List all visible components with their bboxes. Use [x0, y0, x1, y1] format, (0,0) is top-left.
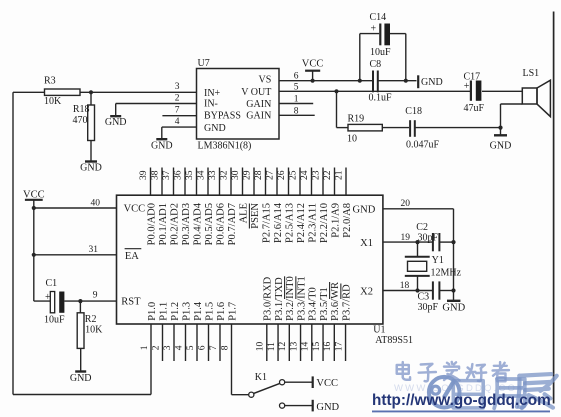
svg-text:P1.1: P1.1: [158, 302, 169, 321]
svg-text:GND: GND: [490, 141, 512, 152]
svg-text:30pF: 30pF: [418, 302, 439, 313]
svg-text:P3.5/T1: P3.5/T1: [319, 287, 330, 321]
svg-text:33: 33: [208, 170, 218, 180]
svg-text:C2: C2: [416, 222, 428, 233]
svg-text:18: 18: [400, 281, 410, 291]
svg-text:10: 10: [256, 342, 266, 352]
svg-text:GND: GND: [353, 204, 376, 215]
svg-text:11: 11: [267, 342, 277, 351]
svg-text:RST: RST: [121, 296, 141, 307]
svg-text:6: 6: [197, 345, 207, 350]
svg-text:U1: U1: [373, 325, 385, 336]
svg-text:24: 24: [300, 170, 310, 180]
svg-text:P1.5: P1.5: [204, 302, 215, 321]
svg-text:GND: GND: [316, 402, 339, 413]
svg-text:30: 30: [231, 170, 241, 180]
svg-text:GND: GND: [105, 117, 127, 128]
svg-text:IN-: IN-: [204, 99, 218, 110]
svg-text:VCC: VCC: [316, 378, 338, 389]
svg-text:8: 8: [220, 345, 230, 350]
svg-text:P3.6/WR: P3.6/WR: [330, 282, 341, 321]
svg-text:12: 12: [278, 342, 288, 352]
svg-text:AT89S51: AT89S51: [375, 335, 413, 346]
svg-text:X1: X1: [360, 238, 373, 249]
svg-text:P1.0: P1.0: [147, 302, 158, 321]
svg-text:28: 28: [254, 170, 264, 180]
svg-text:R19: R19: [348, 113, 365, 124]
svg-text:2: 2: [175, 94, 180, 104]
svg-text:P2.7/A15: P2.7/A15: [261, 203, 272, 243]
svg-text:P2.6/A14: P2.6/A14: [273, 202, 284, 243]
svg-text:http://www.go-gddq.com: http://www.go-gddq.com: [372, 392, 551, 409]
svg-text:17: 17: [334, 342, 344, 352]
svg-text:C14: C14: [370, 12, 387, 23]
svg-text:13: 13: [289, 342, 299, 352]
svg-text:0.1uF: 0.1uF: [369, 93, 393, 104]
svg-text:25: 25: [289, 170, 299, 180]
svg-text:19: 19: [401, 233, 411, 243]
svg-text:+: +: [371, 24, 377, 35]
svg-text:7: 7: [209, 345, 219, 350]
svg-text:47uF: 47uF: [464, 103, 485, 114]
svg-text:P0.1/AD1: P0.1/AD1: [158, 203, 169, 245]
svg-text:GND: GND: [442, 302, 465, 313]
svg-text:BYPASS: BYPASS: [204, 111, 241, 122]
svg-text:10uF: 10uF: [370, 47, 391, 58]
svg-text:10K: 10K: [44, 96, 62, 107]
svg-text:P2.2/A10: P2.2/A10: [319, 203, 330, 243]
svg-text:39: 39: [139, 170, 149, 180]
svg-text:27: 27: [266, 170, 276, 180]
svg-text:P3.2/INT0: P3.2/INT0: [285, 276, 296, 321]
svg-text:31: 31: [89, 245, 99, 255]
svg-text:U7: U7: [198, 58, 210, 69]
svg-text:R18: R18: [73, 104, 90, 115]
svg-text:Y1: Y1: [432, 255, 444, 266]
svg-text:29: 29: [243, 170, 253, 180]
svg-text:15: 15: [312, 342, 322, 352]
svg-text:P0.2/AD2: P0.2/AD2: [169, 203, 180, 245]
svg-text:P1.4: P1.4: [193, 301, 204, 321]
svg-text:GND: GND: [80, 162, 102, 173]
svg-text:21: 21: [335, 170, 345, 180]
svg-text:P1.2: P1.2: [170, 302, 181, 321]
svg-text:EA: EA: [125, 251, 139, 262]
svg-text:3: 3: [175, 82, 180, 92]
svg-text:P2.5/A13: P2.5/A13: [284, 203, 295, 243]
svg-text:P1.6: P1.6: [216, 302, 227, 321]
svg-text:5: 5: [186, 345, 196, 350]
svg-text:P1.3: P1.3: [181, 302, 192, 321]
svg-text:VCC: VCC: [124, 203, 146, 214]
svg-text:16: 16: [323, 342, 333, 352]
svg-text:30pF: 30pF: [418, 232, 439, 243]
svg-text:P0.7/AD7: P0.7/AD7: [227, 203, 238, 245]
svg-text:GND: GND: [204, 123, 226, 134]
svg-text:X2: X2: [360, 286, 373, 297]
svg-text:26: 26: [277, 170, 287, 180]
svg-text:PSEN: PSEN: [250, 203, 261, 229]
svg-text:C18: C18: [405, 106, 422, 117]
svg-text:IN+: IN+: [204, 88, 221, 99]
svg-text:P3.0/RXD: P3.0/RXD: [263, 276, 274, 320]
svg-text:R3: R3: [44, 76, 56, 87]
svg-text:470: 470: [73, 115, 88, 126]
svg-text:34: 34: [197, 170, 207, 180]
svg-text:P2.0/A8: P2.0/A8: [342, 203, 353, 238]
svg-text:LM386N1(8): LM386N1(8): [198, 141, 252, 152]
svg-text:P3.7/RD: P3.7/RD: [341, 284, 352, 321]
svg-text:10: 10: [347, 134, 357, 145]
svg-text:K1: K1: [255, 372, 267, 383]
svg-text:3: 3: [163, 345, 173, 350]
svg-text:0.047uF: 0.047uF: [406, 139, 440, 150]
svg-text:4: 4: [174, 345, 184, 350]
svg-text:P0.5/AD5: P0.5/AD5: [204, 203, 215, 245]
svg-text:6: 6: [294, 72, 299, 82]
svg-text:P3.1/TXD: P3.1/TXD: [274, 277, 285, 321]
svg-text:37: 37: [162, 170, 172, 180]
svg-text:GAIN: GAIN: [246, 99, 271, 110]
svg-text:10K: 10K: [85, 324, 103, 335]
svg-text:VCC: VCC: [302, 59, 324, 70]
svg-text:+: +: [45, 292, 51, 303]
svg-text:C8: C8: [370, 59, 382, 70]
svg-text:14: 14: [301, 342, 311, 352]
svg-text:+: +: [464, 81, 470, 92]
svg-text:P3.3/INT1: P3.3/INT1: [296, 276, 307, 321]
svg-text:7: 7: [175, 106, 180, 116]
svg-text:C17: C17: [464, 72, 481, 83]
svg-text:36: 36: [174, 170, 184, 180]
svg-text:P2.1/A9: P2.1/A9: [330, 203, 341, 238]
svg-text:P0.4/AD4: P0.4/AD4: [192, 202, 203, 245]
svg-text:9: 9: [93, 291, 98, 301]
svg-text:1: 1: [140, 345, 150, 350]
svg-text:35: 35: [185, 170, 195, 180]
svg-text:P0.6/AD6: P0.6/AD6: [215, 203, 226, 245]
svg-text:P0.3/AD3: P0.3/AD3: [181, 203, 192, 245]
svg-text:20: 20: [401, 199, 411, 209]
svg-text:32: 32: [220, 170, 230, 180]
svg-text:12MHz: 12MHz: [431, 268, 462, 279]
svg-text:4: 4: [175, 117, 180, 127]
svg-text:GND: GND: [70, 373, 92, 384]
svg-text:P0.0/AD0: P0.0/AD0: [146, 203, 157, 245]
svg-text:P2.4/A12: P2.4/A12: [296, 203, 307, 243]
svg-text:40: 40: [91, 199, 101, 209]
svg-text:10uF: 10uF: [44, 314, 65, 325]
svg-text:P2.3/A11: P2.3/A11: [307, 203, 318, 243]
svg-text:23: 23: [312, 170, 322, 180]
svg-text:LS1: LS1: [523, 68, 540, 79]
svg-text:GAIN: GAIN: [246, 111, 271, 122]
svg-text:22: 22: [323, 170, 333, 180]
svg-text:2: 2: [151, 345, 161, 350]
svg-text:5: 5: [294, 83, 299, 93]
svg-text:C1: C1: [46, 278, 58, 289]
svg-text:V OUT: V OUT: [241, 87, 271, 98]
svg-text:38: 38: [151, 170, 161, 180]
svg-text:P1.7: P1.7: [227, 302, 238, 321]
svg-text:C3: C3: [418, 291, 430, 302]
svg-text:ALE: ALE: [238, 203, 249, 223]
svg-text:GND: GND: [421, 77, 443, 88]
svg-text:P3.4/T0: P3.4/T0: [308, 287, 319, 321]
svg-text:VS: VS: [259, 75, 272, 86]
svg-text:GND: GND: [151, 140, 173, 151]
